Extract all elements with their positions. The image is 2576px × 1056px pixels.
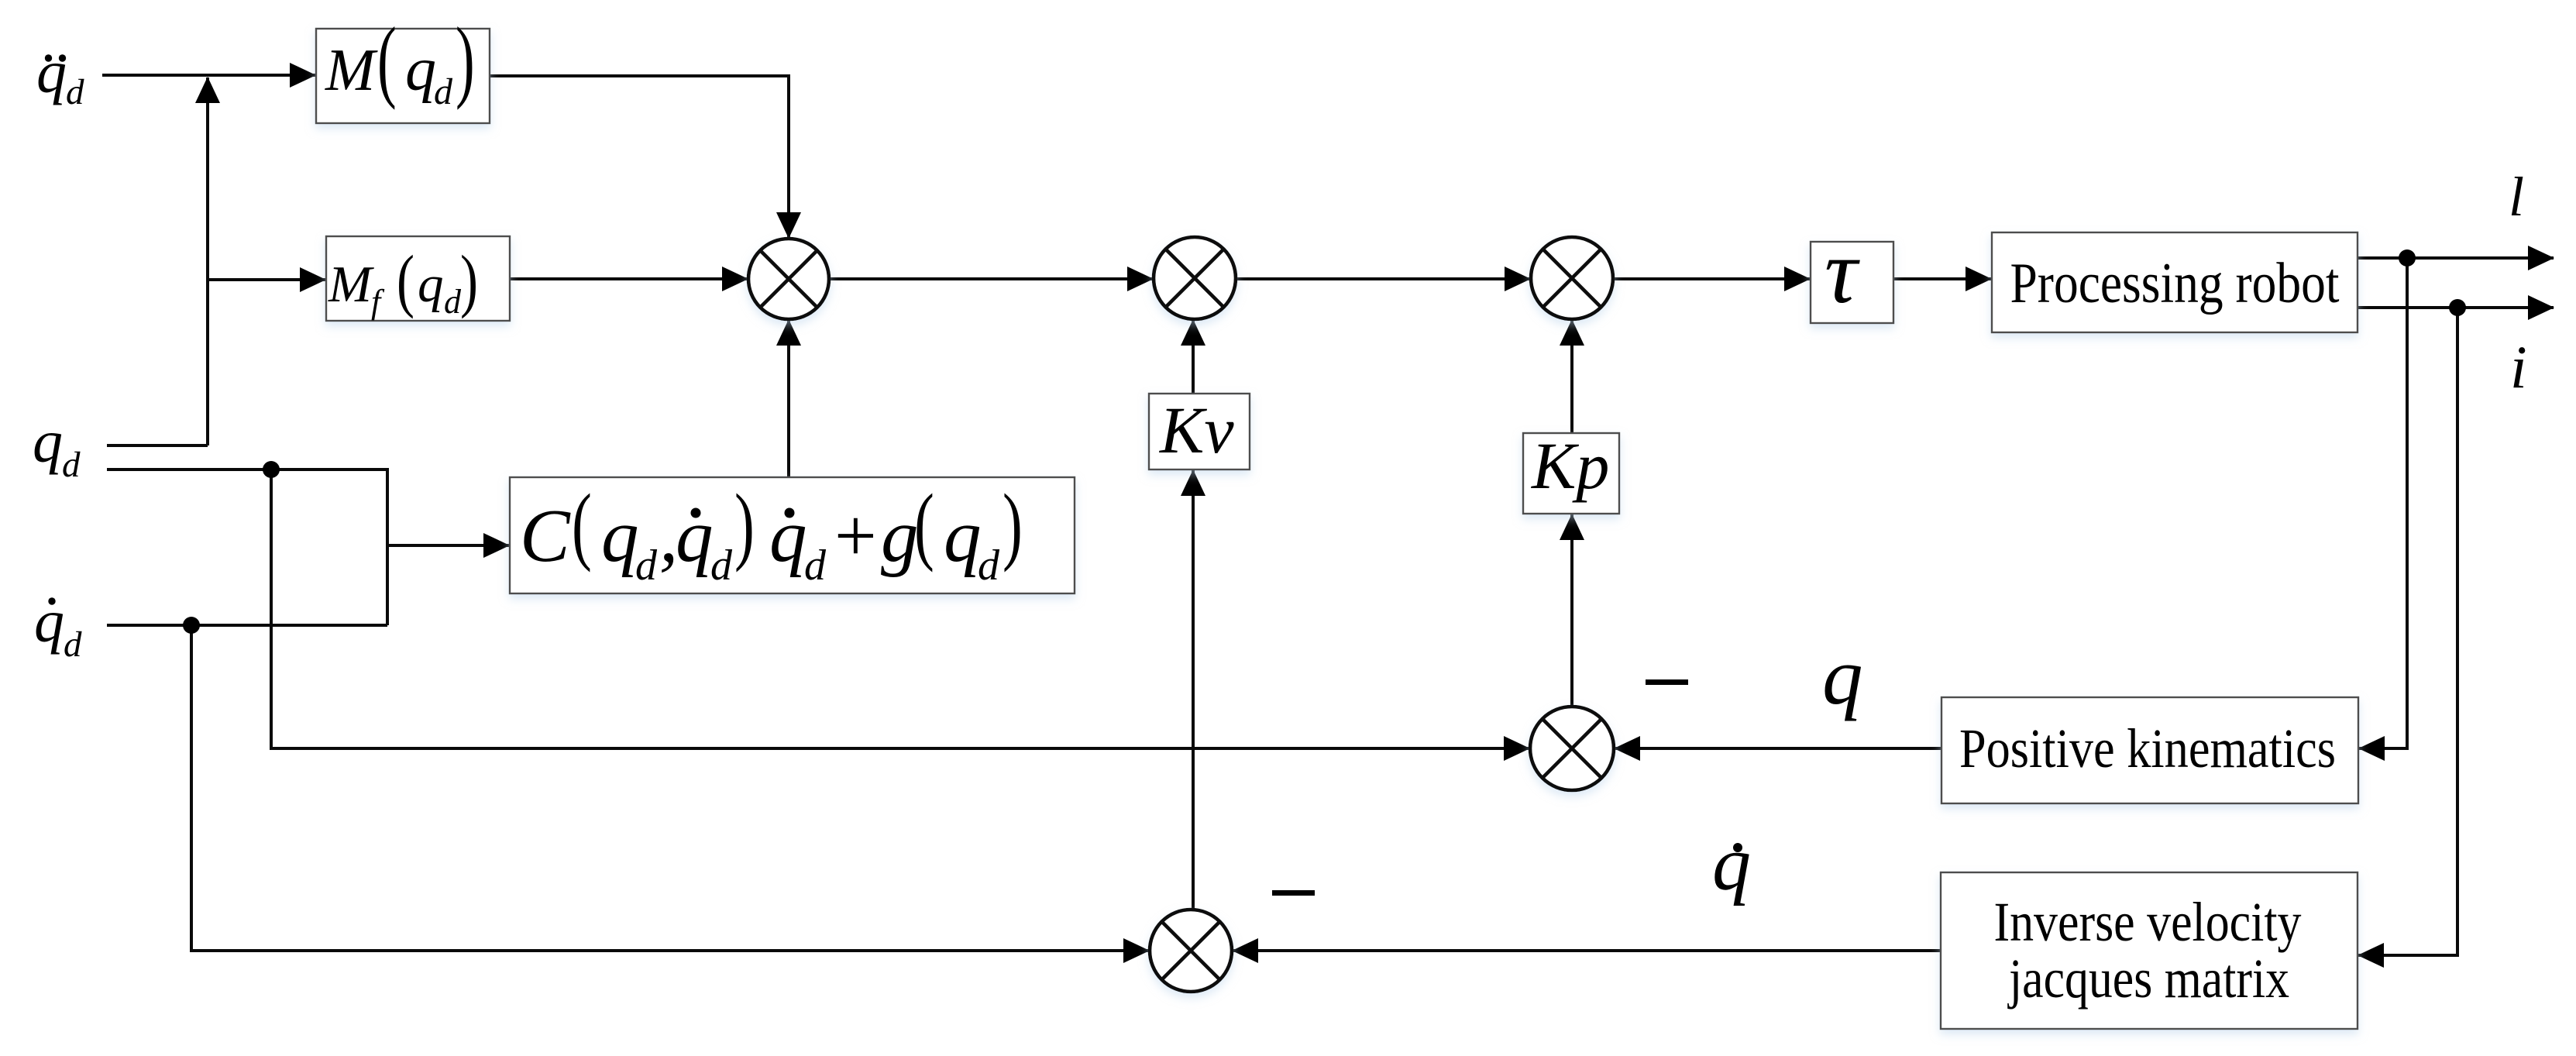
- svg-text:jacques matrix: jacques matrix: [2007, 948, 2289, 1010]
- svg-text:(: (: [377, 9, 397, 111]
- label M(qd): [325, 9, 475, 112]
- box C(qd,q̇d)q̇d+g(qd): [510, 477, 1075, 593]
- wire output l: [2358, 256, 2554, 260]
- label q̇d input: [34, 587, 82, 665]
- svg-text:d: d: [804, 542, 827, 590]
- svg-text:d: d: [434, 71, 453, 112]
- svg-text:): ): [460, 242, 478, 319]
- box Positive kinematics: [1941, 697, 2358, 803]
- svg-text:d: d: [635, 542, 658, 590]
- label Mf(qd): [328, 242, 478, 321]
- svg-text:): ): [734, 476, 755, 573]
- wire junction S2 to junction S3: [1236, 277, 1530, 280]
- svg-text:Inverse velocity: Inverse velocity: [1994, 891, 2302, 953]
- svg-text:l: l: [2509, 166, 2524, 228]
- svg-text:C: C: [520, 494, 571, 577]
- summing junction S1: [748, 239, 829, 319]
- wire Kp box up to junction S3: [1570, 320, 1573, 433]
- wire tau box to Processing robot: [1893, 277, 1991, 280]
- svg-text:q: q: [769, 494, 807, 577]
- wire Positive kinematics output to junction S4: [1615, 747, 1941, 750]
- wire qd up-branch vertical with up arrow: [206, 77, 209, 445]
- wire q̈d input to M(qd): [102, 74, 315, 77]
- wire C box output up to junction S1: [787, 320, 790, 477]
- svg-text:Positive kinematics: Positive kinematics: [1959, 717, 2336, 779]
- wire feedback l to Positive kinematics: [2359, 258, 2407, 748]
- box Kv: [1149, 394, 1250, 470]
- svg-text:d: d: [66, 72, 84, 112]
- svg-text:M: M: [328, 256, 374, 313]
- svg-text:(: (: [572, 476, 592, 573]
- box Kp: [1523, 433, 1619, 514]
- svg-text:Kp: Kp: [1530, 428, 1609, 503]
- svg-text:+: +: [834, 494, 877, 577]
- minus sign at S5: [1272, 890, 1315, 896]
- svg-text:d: d: [64, 624, 82, 665]
- svg-text:(: (: [914, 476, 934, 573]
- summing junction S5: [1150, 910, 1232, 992]
- svg-text:): ): [456, 9, 475, 111]
- svg-text:i: i: [2510, 333, 2527, 401]
- label C(qd,q̇d)q̇d+g(qd): [520, 476, 1023, 590]
- label qd input: [33, 408, 81, 485]
- svg-text:q: q: [601, 494, 639, 577]
- svg-text:): ): [1003, 476, 1023, 573]
- node output i dot: [2449, 299, 2466, 316]
- wire Mf output to junction S1: [510, 277, 748, 280]
- wire Kv box up to junction S2: [1192, 320, 1195, 394]
- svg-text:d: d: [62, 445, 81, 485]
- svg-text:d: d: [978, 542, 1000, 590]
- svg-text:q: q: [1712, 820, 1751, 906]
- svg-text:τ: τ: [1825, 221, 1860, 322]
- svg-text:(: (: [397, 242, 414, 319]
- box M(qd): [316, 29, 490, 123]
- minus sign at S4: [1646, 679, 1688, 685]
- svg-text:q: q: [405, 36, 436, 104]
- wire qd main line with corner down: [107, 470, 387, 625]
- label q̈d input: [36, 38, 84, 112]
- summing junction S3: [1531, 237, 1613, 319]
- wire junction S3 to tau box: [1613, 277, 1810, 280]
- svg-text:q: q: [418, 256, 444, 313]
- node output l dot: [2399, 249, 2416, 267]
- wire q̇d input line: [107, 624, 387, 627]
- summing junction S4: [1530, 707, 1614, 790]
- svg-text:M: M: [325, 36, 378, 103]
- wire junction S1 to junction S2: [829, 277, 1153, 280]
- svg-text:q: q: [676, 494, 714, 577]
- svg-text:d: d: [710, 542, 733, 590]
- wire junction S4 up to Kp box: [1570, 514, 1573, 707]
- wire branch into C box: [387, 544, 509, 547]
- box Mf(qd): [326, 236, 510, 321]
- wire qd feedback down to junction S4: [271, 470, 1529, 748]
- svg-text:q: q: [944, 494, 982, 577]
- svg-text:Kv: Kv: [1158, 393, 1234, 467]
- wire junction S5 up to Kv box: [1192, 470, 1195, 910]
- box tau: [1811, 242, 1893, 323]
- svg-text:q: q: [1822, 631, 1863, 721]
- wire Inverse velocity output to junction S5: [1233, 949, 1941, 952]
- summing junction S2: [1154, 237, 1236, 319]
- label q̇ feedback: [1712, 820, 1751, 906]
- svg-text:Processing robot: Processing robot: [2010, 252, 2340, 315]
- box Inverse velocity jacques matrix: [1941, 872, 2358, 1029]
- svg-text:q: q: [36, 38, 67, 105]
- svg-text:q: q: [33, 408, 63, 475]
- svg-text:q: q: [34, 587, 64, 655]
- wire q̇d feedback down to junction S5: [191, 625, 1149, 951]
- svg-text:g: g: [881, 494, 919, 577]
- wire qd upper stub: [107, 444, 208, 447]
- svg-text:d: d: [444, 283, 462, 321]
- wire feedback i to Inverse velocity matrix: [2358, 308, 2457, 955]
- box Processing robot: [1992, 232, 2358, 332]
- wire output i: [2358, 306, 2554, 309]
- node q̇d branch dot: [183, 617, 200, 634]
- wire M(qd) output to junction S1 top: [490, 76, 789, 238]
- wire branch to Mf box: [208, 278, 325, 281]
- node qd branch dot: [263, 461, 280, 478]
